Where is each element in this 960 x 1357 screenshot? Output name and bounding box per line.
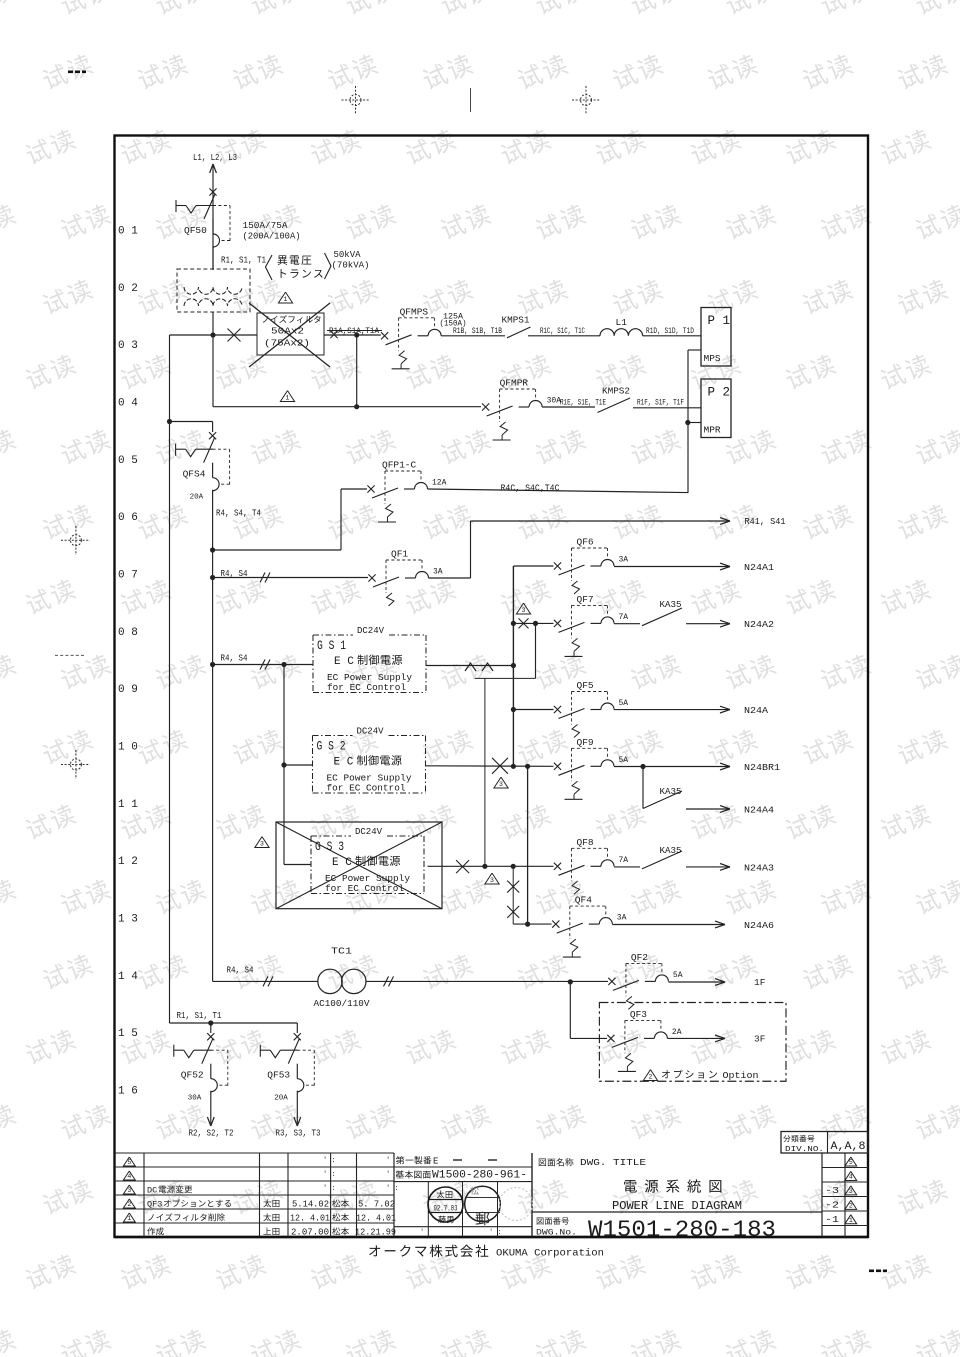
- wire QF3 to 3F arrow: [667, 1037, 723, 1039]
- wire QF52 drop: [210, 1023, 212, 1033]
- breaker QF6 3A: [554, 562, 561, 569]
- approval stamp circle 太田 92.7.03 藤男: [428, 1187, 463, 1222]
- svg-text:0 1: 0 1: [118, 226, 138, 238]
- wire L1 to connector P1: [643, 335, 701, 337]
- svg-text:N24A: N24A: [744, 705, 768, 716]
- deleted-wire x mark QF7 row: [519, 618, 529, 628]
- svg-text:L1: L1: [616, 317, 628, 328]
- option enclosure box (dash-dot): [599, 1003, 786, 1082]
- svg-text:(75Ax2): (75Ax2): [264, 339, 310, 349]
- svg-text:1F: 1F: [754, 977, 766, 988]
- svg-text:QF53: QF53: [267, 1070, 290, 1081]
- breaker QF1 3A: [368, 574, 375, 581]
- contactor contact KMPS1: [507, 327, 531, 338]
- svg-text:R1D, S1D, T1D: R1D, S1D, T1D: [646, 326, 694, 336]
- svg-text:12. 4.01: 12. 4.01: [290, 1214, 330, 1224]
- svg-text:E C: E C: [332, 857, 352, 869]
- svg-text:DIV.NO.: DIV.NO.: [785, 1146, 824, 1154]
- svg-text:' :: ' :: [323, 1185, 336, 1193]
- wire QF52 output with down arrow: [210, 1091, 212, 1124]
- svg-text:R4, S4: R4, S4: [221, 568, 248, 579]
- svg-text:20A: 20A: [274, 1095, 288, 1103]
- revision triangles column (left table): [123, 1157, 135, 1166]
- svg-text:L1, L2, L3: L1, L2, L3: [193, 152, 237, 163]
- wire R41,S41 with arrow: [471, 520, 729, 522]
- svg-text:N24A6: N24A6: [744, 920, 774, 931]
- wire left bus A vertical x=169.5 (row03 to row15): [169, 335, 171, 1023]
- svg-text:2: 2: [127, 1201, 131, 1208]
- node junction bus B GS1 feed: [210, 662, 215, 667]
- wire GS3 output to QF8 row: [428, 865, 554, 867]
- svg-text:QF50: QF50: [184, 225, 207, 236]
- svg-text:1 5: 1 5: [118, 1028, 138, 1040]
- wire GS1 feed: [213, 664, 313, 666]
- svg-text:P 1: P 1: [708, 314, 731, 328]
- svg-text:' :: ' :: [323, 1171, 336, 1179]
- breaker QFS4 20A: [209, 432, 216, 439]
- svg-text:3: 3: [127, 1187, 131, 1194]
- svg-text:5A: 5A: [673, 971, 683, 980]
- wire row04 bus: [213, 406, 481, 408]
- contactor contact KMPS2: [598, 398, 631, 413]
- svg-text:2: 2: [849, 1203, 853, 1210]
- node junction QF4 row x=527.6: [525, 922, 530, 927]
- wire QFP1-C to P2 via x=688: [428, 489, 689, 493]
- svg-text:G S 2: G S 2: [317, 740, 346, 754]
- svg-text:DC24V: DC24V: [355, 827, 383, 837]
- svg-text:for EC Control: for EC Control: [327, 682, 406, 693]
- svg-text:DWG. TITLE: DWG. TITLE: [580, 1157, 646, 1168]
- svg-text:DC24V: DC24V: [357, 726, 385, 736]
- node junction QF2/QF3 tap: [568, 979, 573, 984]
- breaker QFP1-C 12A: [367, 485, 374, 492]
- svg-text:POWER LINE DIAGRAM: POWER LINE DIAGRAM: [612, 1199, 742, 1213]
- svg-text:5. 7.02: 5. 7.02: [358, 1200, 395, 1210]
- revision index column entries: [845, 1157, 857, 1166]
- wire bus B vertical x=212.6 (QFS4 to TC1 row): [212, 490, 214, 982]
- node junction bus QF5 row: [511, 707, 516, 712]
- wire transformer T1 to node row03: [212, 312, 214, 335]
- svg-text:150A/75A: 150A/75A: [243, 220, 288, 231]
- svg-text:QFS4: QFS4: [183, 469, 206, 480]
- wire QF5 to N24A arrow: [614, 709, 728, 711]
- svg-text:R1B, S1B, T1B: R1B, S1B, T1B: [453, 326, 502, 336]
- svg-text:R41, S41: R41, S41: [745, 516, 786, 527]
- first product number row 第一製番E - -: [396, 1156, 431, 1164]
- svg-text:QF9: QF9: [577, 737, 594, 748]
- svg-text:12A: 12A: [432, 479, 447, 488]
- wire QF4 to N24A6 arrow: [612, 924, 723, 926]
- relay contact KA35 (QF7 output): [614, 623, 640, 625]
- wire P1 tap down to P2 (x=688): [688, 349, 701, 351]
- svg-text:R4, S4: R4, S4: [221, 653, 248, 664]
- svg-text:0 3: 0 3: [118, 340, 138, 352]
- svg-text:N24A1: N24A1: [744, 562, 774, 573]
- svg-text:5: 5: [127, 1159, 131, 1166]
- svg-text:QFMPR: QFMPR: [500, 378, 529, 389]
- svg-text:3: 3: [499, 781, 503, 788]
- svg-text:' :: ' :: [386, 1185, 399, 1193]
- svg-text:3A: 3A: [617, 914, 627, 923]
- wire KMPS1 to L1 inductor: [528, 335, 600, 337]
- svg-text:AC100/110V: AC100/110V: [314, 999, 371, 1009]
- noise filter box (deleted) ノイズフィルタ 50Ax2 (75Ax2): [257, 313, 324, 355]
- wire QF5 row: [513, 709, 553, 711]
- node junction bus A / QFS4 tap: [167, 419, 172, 424]
- node junction second vertical top: [533, 621, 538, 626]
- warning triangle 1 on row04: [280, 391, 294, 402]
- svg-text:N24BR1: N24BR1: [744, 762, 780, 773]
- revision row 6 text 作成 上田 2.07.00 松本 12.21.99: [147, 1227, 164, 1235]
- svg-text:1: 1: [284, 296, 288, 303]
- svg-text:2.07.00: 2.07.00: [291, 1228, 329, 1238]
- svg-text:3: 3: [260, 841, 264, 848]
- deleted-wire x mark row03: [228, 329, 241, 342]
- svg-text:50kVA: 50kVA: [334, 249, 361, 260]
- svg-text:N24A3: N24A3: [744, 863, 774, 874]
- svg-text:W1501-280-183: W1501-280-183: [588, 1217, 776, 1244]
- svg-text:1: 1: [849, 1217, 853, 1224]
- wire QFS4 feed: [170, 421, 213, 423]
- svg-text:QF3: QF3: [630, 1009, 647, 1020]
- svg-text:E: E: [433, 1157, 438, 1167]
- svg-text:QF7: QF7: [577, 594, 594, 605]
- wire filter output to QFMPS: [324, 334, 381, 336]
- node junction QF8 row x=513.2: [511, 864, 516, 869]
- warning triangle 1 (noise filter delete) above filter: [278, 292, 292, 303]
- deleted-wire x mark GS3 output: [456, 860, 469, 873]
- wire QF53 output with down arrow: [296, 1091, 298, 1124]
- svg-text:QF52: QF52: [181, 1070, 204, 1081]
- svg-text:1: 1: [286, 395, 290, 402]
- svg-text:5: 5: [849, 1159, 853, 1166]
- approval stamp circle 3 (faint): [500, 1188, 533, 1221]
- svg-text:E C: E C: [334, 757, 354, 769]
- wire deleted bus segment x=513.2 with x marks: [512, 866, 514, 924]
- wire bus A corner to QF52/QF53 feeds: [170, 1022, 298, 1024]
- svg-text:92.7.03: 92.7.03: [434, 1205, 458, 1213]
- wire second vertical x=535.5 and rerouted link to QF8 row: [535, 623, 537, 678]
- wire right distribution bus x=513.4: [512, 566, 514, 766]
- wire GS2 feed: [284, 764, 313, 766]
- svg-text:2A: 2A: [672, 1028, 682, 1037]
- svg-text:1 1: 1 1: [118, 799, 138, 811]
- power supply GS1 (EC control power supply): [313, 634, 353, 636]
- svg-text:1 3: 1 3: [118, 913, 138, 925]
- wire KA35 to N24A3 arrow: [686, 866, 728, 868]
- svg-text:R1, S1, T1: R1, S1, T1: [221, 255, 266, 266]
- power supply GS3 (deleted, crossed out): [276, 822, 442, 909]
- relay contact KA35 (QF8 output): [614, 866, 640, 868]
- svg-text:KA35: KA35: [660, 786, 682, 797]
- svg-text:R4C, S4C,T4C: R4C, S4C,T4C: [501, 483, 560, 494]
- svg-text:QF1: QF1: [391, 549, 408, 560]
- svg-text:7A: 7A: [619, 856, 629, 865]
- svg-text:R1F, S1F, T1F: R1F, S1F, T1F: [637, 398, 684, 408]
- wire GS2 output to QF9 row: [426, 765, 554, 768]
- svg-text:0 9: 0 9: [118, 684, 138, 696]
- svg-text:(70kVA): (70kVA): [332, 260, 370, 271]
- wire QF4 row from deleted segment: [513, 923, 551, 925]
- svg-text:R1E, S1E, T1E: R1E, S1E, T1E: [560, 398, 606, 408]
- breaker QF8 7A: [554, 863, 561, 870]
- deleted-wire big x mark on GS2 output: [492, 758, 508, 774]
- svg-text:3: 3: [522, 607, 526, 614]
- node junction row03/T1: [210, 332, 215, 337]
- breaker QF52 30A: [207, 1033, 214, 1040]
- svg-text:4: 4: [127, 1173, 131, 1180]
- svg-text:1 2: 1 2: [118, 856, 138, 868]
- svg-text:1 4: 1 4: [118, 971, 138, 983]
- svg-text:-2: -2: [825, 1200, 839, 1210]
- base drawing row 基本図面W1500-280-961-: [396, 1170, 431, 1178]
- svg-text:3A: 3A: [433, 568, 443, 577]
- node junction N24BR1 / KA35 tap: [640, 764, 645, 769]
- svg-text:G S 1: G S 1: [317, 639, 346, 653]
- title block grid: [115, 1152, 395, 1154]
- wire QF53 drop: [296, 1023, 298, 1033]
- svg-text:QF3: QF3: [147, 1200, 162, 1210]
- wire QF1 up to R41,S41 line: [429, 577, 471, 579]
- node junction bus end QF9 row: [511, 764, 516, 769]
- svg-text:TC1: TC1: [331, 946, 352, 957]
- drawing number cell 図面番号 DWG.No.: [537, 1217, 569, 1224]
- wire QFMPS to KMPS1: [441, 335, 505, 337]
- svg-text:' :: ' :: [489, 1229, 502, 1237]
- wire break slashes before TC1: [263, 976, 268, 986]
- svg-text:R4, S4, T4: R4, S4, T4: [216, 508, 261, 519]
- wire QF2/QF3 vertical link: [569, 982, 571, 1039]
- svg-text:A,A,8: A,A,8: [831, 1141, 866, 1153]
- wire QF7 row: [513, 622, 553, 624]
- svg-text:KMPS1: KMPS1: [502, 315, 530, 326]
- breaker QF3 2A (optional): [607, 1035, 614, 1042]
- wire row03 horizontal bus: [170, 334, 258, 336]
- polarity marks on GS1 output: [465, 663, 476, 671]
- breaker QF53 20A: [294, 1033, 301, 1040]
- wire break slashes GS1 row: [260, 660, 265, 670]
- svg-text:R4, S4: R4, S4: [227, 965, 254, 976]
- svg-text:-3: -3: [825, 1186, 839, 1196]
- transformer T1 (isolation transformer, dashed box with windings): [177, 269, 250, 312]
- svg-text:for EC Control: for EC Control: [327, 783, 406, 794]
- breaker QF2 5A: [608, 978, 615, 985]
- wire row06 to QFP1-C: [213, 549, 341, 551]
- transformer T1 annotation 異電圧トランス with brackets and 50kVA (70kVA): [266, 255, 273, 280]
- node junction bus GS1 output: [511, 663, 516, 668]
- svg-text:30A: 30A: [188, 1095, 202, 1103]
- svg-text:E C: E C: [334, 656, 354, 668]
- svg-text:12. 4.01: 12. 4.01: [356, 1214, 396, 1224]
- breaker QFMPR 30A: [482, 403, 489, 410]
- wire down to KA35 (N24A4 branch): [642, 767, 644, 809]
- svg-text:1: 1: [127, 1215, 131, 1222]
- wire GS3 feed: [284, 864, 311, 866]
- svg-text:0 2: 0 2: [118, 283, 138, 295]
- svg-text:G S 3: G S 3: [315, 840, 344, 854]
- node junction bus QF7 row: [511, 621, 516, 626]
- node junction QF52 feed: [208, 1020, 213, 1025]
- wire vertical x=284 GS1 to GS3: [283, 665, 285, 865]
- svg-text:0 4: 0 4: [118, 397, 138, 409]
- svg-text:' :: ' :: [323, 1157, 336, 1165]
- wire break slashes after TC1: [384, 976, 389, 986]
- svg-text:4: 4: [849, 1174, 853, 1181]
- svg-text:(200A/100A): (200A/100A): [243, 231, 301, 242]
- connector P2 (MPR): [701, 379, 731, 438]
- svg-text:3F: 3F: [754, 1034, 766, 1045]
- svg-text:MPR: MPR: [704, 425, 721, 436]
- wire GS1 output to bus: [426, 665, 513, 667]
- node junction P2 feed: [685, 420, 690, 425]
- svg-text:QF5: QF5: [577, 680, 594, 691]
- svg-text:QF2: QF2: [631, 952, 648, 963]
- svg-text:5A: 5A: [619, 756, 629, 765]
- wire vertical x=527.6 (QF9 row to QF4 row): [527, 766, 529, 924]
- breaker QF9 5A: [554, 763, 561, 770]
- title 電源系統図: [624, 1179, 721, 1192]
- svg-text:1 6: 1 6: [118, 1085, 138, 1097]
- svg-text:QF6: QF6: [577, 537, 594, 548]
- wire row03 to row04 vertical (x=213): [212, 335, 214, 407]
- node junction GS2 feed: [281, 762, 286, 767]
- svg-text:7A: 7A: [619, 613, 629, 622]
- drawing title cell 図面名称 DWG. TITLE: [539, 1158, 574, 1166]
- wire QF6 row: [513, 565, 553, 567]
- wire TC1 row left: [213, 980, 318, 982]
- svg-text:QF4: QF4: [575, 895, 592, 906]
- node junction bus B row06: [210, 547, 215, 552]
- wire QF9 to N24BR1 arrow: [614, 766, 728, 768]
- division number box 分類番号 DIV.NO. A,A,8: [781, 1132, 868, 1154]
- warning triangle 3 below GS2 output: [494, 777, 508, 788]
- svg-text:2: 2: [649, 1074, 653, 1081]
- wire QF2 to 1F arrow: [668, 981, 723, 983]
- breaker QF50: [209, 188, 216, 195]
- svg-text:MPS: MPS: [704, 353, 721, 364]
- svg-text:': ': [420, 1229, 424, 1237]
- node junction GS2/GS3 drop x=284: [281, 662, 286, 667]
- svg-text:P 2: P 2: [708, 386, 731, 400]
- warning triangle 2 and option label: [643, 1070, 657, 1081]
- wire to L1,L2,L3 with up arrow: [212, 166, 214, 270]
- wire QFMPR to KMPS2: [542, 406, 595, 408]
- svg-text:KMPS2: KMPS2: [602, 386, 630, 397]
- svg-text:N24A2: N24A2: [744, 619, 774, 630]
- breaker QF5 5A: [554, 706, 561, 713]
- svg-text:DC24V: DC24V: [357, 626, 385, 636]
- svg-text:R1C, S1C, T1C: R1C, S1C, T1C: [540, 326, 585, 336]
- wire break slashes row07: [260, 573, 265, 583]
- svg-text:KA35: KA35: [660, 845, 682, 856]
- svg-text:0 6: 0 6: [118, 512, 138, 524]
- breaker QF4 3A: [552, 921, 559, 928]
- node junction row03 to row04 drop: [354, 332, 359, 337]
- svg-text:0 8: 0 8: [118, 627, 138, 639]
- svg-text:QF8: QF8: [577, 837, 594, 848]
- svg-text:Option: Option: [723, 1070, 759, 1081]
- svg-text:1 0: 1 0: [118, 741, 138, 753]
- svg-text:-1: -1: [825, 1215, 839, 1225]
- svg-text:0 7: 0 7: [118, 569, 138, 581]
- wire junction to connector P2: [688, 422, 701, 424]
- svg-text:R2, S2, T2: R2, S2, T2: [189, 1128, 234, 1139]
- warning triangle 3 left of GS3: [255, 837, 269, 848]
- svg-text:3: 3: [490, 877, 494, 884]
- wire KA35 to N24A2 arrow: [686, 623, 728, 625]
- node junction bus B row07: [210, 575, 215, 580]
- svg-text:0 5: 0 5: [118, 455, 138, 467]
- svg-text:5.14.02: 5.14.02: [292, 1200, 329, 1210]
- wire QF6 to N24A1 arrow: [614, 566, 728, 568]
- wire QF50 to transformer T1: [212, 246, 214, 269]
- svg-text:W1500-280-961-: W1500-280-961-: [432, 1170, 527, 1182]
- svg-text:QFMPS: QFMPS: [400, 306, 429, 317]
- warning triangle 3 QF8 row: [485, 873, 499, 884]
- svg-text:12.21.99: 12.21.99: [355, 1228, 396, 1238]
- svg-text:DC: DC: [147, 1186, 157, 1196]
- wire row07 to QF1: [213, 577, 368, 579]
- wire row03 to row04 vertical (x=356.7): [356, 335, 358, 407]
- breaker QF7 7A: [554, 620, 561, 627]
- node junction rerouted link / QF8 row: [482, 864, 487, 869]
- node junction vertical x=527.6 top: [525, 764, 530, 769]
- svg-text:30A: 30A: [547, 397, 562, 406]
- warning triangle 3 QF7 row: [516, 603, 530, 614]
- node junction row04 x=356.7: [354, 404, 359, 409]
- svg-text:20A: 20A: [190, 494, 204, 502]
- deletion cross over noise filter: [249, 303, 330, 367]
- connector P1 (MPS): [701, 308, 731, 367]
- svg-text:KA35: KA35: [660, 599, 682, 610]
- wire KMPS2 to connector P2: [633, 407, 701, 409]
- svg-text:QFP1-C: QFP1-C: [382, 460, 417, 471]
- breaker QFMPS 125A (150A): [381, 332, 388, 339]
- svg-text:5A: 5A: [619, 699, 629, 708]
- relay contact KA35 (N24A4 branch): [643, 791, 682, 809]
- svg-text:3A: 3A: [619, 556, 629, 565]
- svg-text:DWG.No.: DWG.No.: [536, 1228, 577, 1238]
- wire TC1 to QF2: [366, 980, 608, 982]
- wire KA35 to N24A4 arrow: [686, 808, 728, 810]
- svg-text:N24A4: N24A4: [744, 805, 774, 816]
- svg-text:3: 3: [849, 1188, 853, 1195]
- svg-text:R3, S3, T3: R3, S3, T3: [276, 1128, 321, 1139]
- revision row 5 text ノイズフィルタ削除 太田 12. 4.01 松本 12. 4.01: [148, 1213, 225, 1221]
- svg-text:R1, S1, T1: R1, S1, T1: [177, 1010, 222, 1021]
- inductor L1: [600, 329, 643, 336]
- company caption オークマ株式会社 OKUMA Corporation: [369, 1245, 488, 1258]
- approval stamp circle 2 (hanko): [465, 1186, 501, 1222]
- power supply GS2 (EC control power supply): [313, 735, 353, 737]
- svg-text:for EC Control: for EC Control: [325, 883, 404, 894]
- svg-text:OKUMA Corporation: OKUMA Corporation: [496, 1248, 604, 1260]
